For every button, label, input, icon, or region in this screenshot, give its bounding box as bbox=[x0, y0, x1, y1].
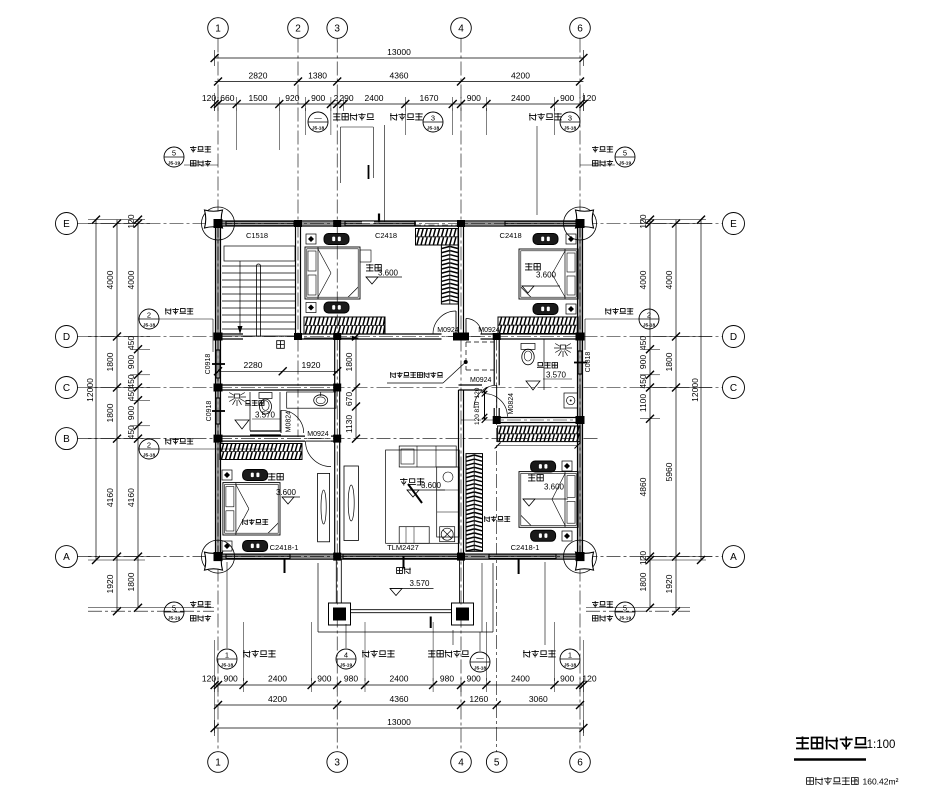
callout ext wall detail 4 bottom bbox=[336, 649, 356, 669]
svg-text:4160: 4160 bbox=[105, 488, 115, 507]
svg-text:5: 5 bbox=[172, 149, 176, 158]
svg-text:810: 810 bbox=[474, 401, 481, 412]
svg-text:1500: 1500 bbox=[249, 93, 268, 103]
dim line below hatch bbox=[498, 445, 578, 447]
svg-text:—: — bbox=[314, 114, 322, 123]
svg-text:900: 900 bbox=[317, 674, 331, 684]
shower head bathroom1 bbox=[228, 393, 246, 407]
window C1518 on E wall bbox=[226, 222, 294, 225]
wall interior B row with door opening bbox=[218, 437, 305, 440]
svg-text:900: 900 bbox=[224, 674, 238, 684]
svg-text:3.600: 3.600 bbox=[544, 483, 565, 492]
diamond bedroom4 upper bbox=[562, 461, 572, 471]
wall interior C row vestibule stub bbox=[459, 386, 483, 389]
svg-text:2: 2 bbox=[295, 24, 301, 35]
svg-text:1920: 1920 bbox=[105, 574, 115, 593]
balcony front rail bbox=[351, 609, 452, 611]
wall bathroom1 divider bbox=[279, 392, 281, 431]
svg-text:1920: 1920 bbox=[664, 574, 674, 593]
callout deco column bottom right bbox=[592, 601, 613, 608]
svg-text:3.600: 3.600 bbox=[421, 481, 442, 490]
wardrobe bedroom1 upper bbox=[533, 234, 558, 245]
svg-text:290: 290 bbox=[339, 93, 353, 103]
svg-text:2400: 2400 bbox=[511, 674, 530, 684]
svg-text:5: 5 bbox=[623, 604, 627, 613]
svg-text:1670: 1670 bbox=[420, 93, 439, 103]
dimension line top detail chain bbox=[215, 103, 584, 105]
svg-text:2: 2 bbox=[147, 311, 151, 320]
wall bathroom2 left grid 5 bbox=[495, 337, 498, 386]
wall exterior A row bbox=[218, 555, 580, 558]
svg-text:C2418: C2418 bbox=[500, 231, 522, 240]
node 3 bottom bubble bbox=[327, 752, 348, 773]
door M0924 into bedroom2 bbox=[433, 311, 456, 334]
svg-text:2: 2 bbox=[334, 93, 339, 103]
svg-text:4: 4 bbox=[458, 24, 464, 35]
grid line B horizontal bbox=[78, 438, 601, 440]
wardrobe bedroom3 upper bbox=[243, 470, 268, 481]
svg-text:J5-18: J5-18 bbox=[474, 666, 487, 672]
svg-text:1380: 1380 bbox=[308, 71, 327, 81]
door M0924 vestibule bbox=[484, 394, 486, 417]
level bedroom1 3.600 bbox=[522, 286, 534, 293]
node C right bubble bbox=[723, 377, 745, 399]
level line right below A bbox=[586, 607, 690, 609]
callout deco column top right bbox=[592, 146, 613, 153]
toilet bathroom1 bbox=[259, 393, 272, 399]
grid line A horizontal bbox=[78, 556, 723, 558]
interior dim right chain 1800 670 1130 bbox=[355, 337, 357, 439]
svg-text:：160.42m²: ：160.42m² bbox=[854, 777, 899, 787]
wardrobe bedroom4 upper bbox=[531, 461, 556, 472]
callout concrete steps bottom bbox=[428, 650, 469, 658]
dimension line right mid chain bbox=[675, 220, 677, 612]
node 6 top bubble bbox=[570, 18, 591, 39]
svg-text:1: 1 bbox=[215, 758, 221, 769]
svg-text:900: 900 bbox=[467, 674, 481, 684]
column blocks bbox=[214, 219, 223, 228]
extension lines top chain bbox=[236, 108, 238, 135]
diamond bedroom2 upper bbox=[306, 234, 316, 244]
grid line 2 vertical bbox=[297, 39, 299, 441]
balcony column right bbox=[452, 603, 474, 625]
door TLM2427 opening on A wall bbox=[343, 555, 458, 558]
node 2 top bubble bbox=[288, 18, 309, 39]
node A right bubble bbox=[723, 546, 745, 568]
hatch strip bedroom3 top bbox=[220, 444, 302, 460]
title floor plan bbox=[796, 737, 867, 750]
dimension line top spans bbox=[215, 81, 584, 83]
svg-text:3.570: 3.570 bbox=[409, 579, 430, 588]
stair down label bbox=[277, 341, 285, 349]
svg-text:B: B bbox=[63, 434, 70, 445]
svg-text:J5-18: J5-18 bbox=[143, 453, 156, 459]
svg-text:4200: 4200 bbox=[511, 71, 530, 81]
balcony side rail right bbox=[459, 559, 461, 603]
svg-text:3.570: 3.570 bbox=[255, 411, 276, 420]
svg-text:4360: 4360 bbox=[390, 71, 409, 81]
dimension line bottom spans bbox=[215, 704, 584, 706]
grid line 5 vertical bbox=[496, 336, 498, 752]
balcony level 3.570 bbox=[390, 589, 402, 596]
callout deco column top left bbox=[164, 147, 184, 167]
svg-text:2400: 2400 bbox=[390, 674, 409, 684]
wall bathroom2 bottom bbox=[494, 418, 580, 421]
svg-text:C1518: C1518 bbox=[246, 231, 268, 240]
svg-text:13000: 13000 bbox=[387, 717, 411, 727]
svg-text:980: 980 bbox=[344, 674, 358, 684]
svg-text:4000: 4000 bbox=[664, 270, 674, 289]
level living room 3.600 bbox=[407, 490, 419, 497]
diamond bedroom2 lower bbox=[306, 303, 316, 313]
node E right bubble bbox=[723, 213, 745, 235]
bed bedroom1 bbox=[519, 249, 578, 299]
label living room bbox=[400, 478, 424, 486]
svg-text:1800: 1800 bbox=[105, 403, 115, 422]
svg-text:C2418: C2418 bbox=[375, 231, 397, 240]
svg-text:2: 2 bbox=[647, 311, 651, 320]
svg-text:4860: 4860 bbox=[638, 477, 648, 496]
diamond bedroom1 lower bbox=[566, 304, 576, 314]
wardrobe bedroom3 lower bbox=[243, 541, 268, 552]
bed bedroom4 bbox=[519, 472, 578, 528]
svg-text:3060: 3060 bbox=[529, 694, 548, 704]
level bedroom2 3.600 bbox=[366, 277, 378, 284]
svg-text:J5-19: J5-19 bbox=[619, 161, 632, 167]
dimension line bottom 13000 bbox=[215, 727, 584, 729]
window C0918 lower on left wall bbox=[216, 398, 219, 424]
svg-text:M0924: M0924 bbox=[478, 327, 500, 334]
label bedroom2 bbox=[366, 264, 381, 272]
svg-text:4200: 4200 bbox=[268, 694, 287, 704]
svg-text:2400: 2400 bbox=[268, 674, 287, 684]
callout concrete steps top bbox=[308, 112, 328, 132]
svg-text:J5-18: J5-18 bbox=[312, 126, 325, 132]
svg-text:450: 450 bbox=[126, 387, 136, 401]
label bathroom1 bbox=[245, 400, 264, 406]
window C0918 upper on left wall bbox=[216, 350, 219, 378]
svg-text:6: 6 bbox=[577, 24, 583, 35]
window guard label bedroom3 bbox=[242, 519, 268, 525]
svg-text:450: 450 bbox=[126, 425, 136, 439]
svg-text:1800: 1800 bbox=[105, 352, 115, 371]
svg-text:4000: 4000 bbox=[638, 270, 648, 289]
grid line E horizontal bbox=[78, 223, 723, 225]
area note bbox=[807, 777, 859, 785]
svg-text:M0924: M0924 bbox=[307, 431, 329, 438]
svg-text:120: 120 bbox=[638, 551, 648, 565]
svg-text:120: 120 bbox=[126, 214, 136, 228]
hatch strip top attic bbox=[416, 229, 459, 246]
svg-text:E: E bbox=[730, 219, 737, 230]
svg-text:TLM2427: TLM2427 bbox=[387, 543, 419, 552]
window tick right wall bbox=[574, 362, 587, 364]
svg-text:3.570: 3.570 bbox=[546, 371, 567, 380]
svg-text:J5-18: J5-18 bbox=[143, 323, 156, 329]
node E left bubble bbox=[56, 213, 78, 235]
svg-text:5: 5 bbox=[623, 149, 627, 158]
svg-text:2400: 2400 bbox=[365, 93, 384, 103]
hatch strip vertical bedroom4 left bbox=[466, 454, 483, 552]
svg-text:12000: 12000 bbox=[85, 378, 95, 402]
hatch strip bedroom2 bottom bbox=[304, 317, 385, 334]
decorative corner column bottom-left bbox=[202, 540, 235, 573]
door M0924 into bedroom1 bbox=[466, 319, 482, 335]
diamond bedroom4 lower bbox=[562, 531, 572, 541]
svg-text:J5-19: J5-19 bbox=[168, 161, 181, 167]
wall interior grid 4 lower bbox=[459, 390, 462, 557]
node 1 top bubble bbox=[208, 18, 229, 39]
svg-text:1: 1 bbox=[225, 651, 229, 660]
svg-text:3: 3 bbox=[334, 758, 340, 769]
svg-text:900: 900 bbox=[560, 93, 574, 103]
decorative corner column top-left bbox=[202, 207, 235, 240]
coffee table bbox=[399, 527, 429, 544]
svg-text:3.600: 3.600 bbox=[276, 488, 297, 497]
diamond bedroom3 lower bbox=[222, 541, 232, 551]
svg-text:980: 980 bbox=[440, 674, 454, 684]
balcony side rail left bbox=[335, 559, 337, 603]
dimension line right 12000 bbox=[700, 220, 702, 560]
grid line 6 vertical bbox=[579, 39, 581, 752]
svg-text:A: A bbox=[63, 552, 70, 563]
svg-text:J5-19: J5-19 bbox=[340, 663, 353, 669]
node B left bubble bbox=[56, 428, 78, 450]
bed bedroom2 bbox=[305, 247, 360, 299]
wall bathroom2 divider bbox=[543, 339, 545, 390]
attic access projection label bbox=[464, 360, 468, 364]
extension lines bottom chain bbox=[243, 622, 245, 681]
svg-text:J5-18: J5-18 bbox=[564, 126, 577, 132]
callout ext wall detail 3 top right bbox=[529, 113, 562, 121]
flow arrow on D wall bbox=[304, 337, 352, 339]
diamond bedroom1 upper bbox=[566, 234, 576, 244]
label bedroom3 bbox=[268, 473, 283, 481]
svg-text:M0824: M0824 bbox=[285, 411, 292, 433]
label bedroom1 bbox=[525, 263, 540, 271]
node 3 top bubble bbox=[327, 18, 348, 39]
node C left bubble bbox=[56, 377, 78, 399]
dimension line left mid chain bbox=[116, 220, 118, 612]
level triangle bathroom2 bbox=[526, 381, 540, 390]
node D right bubble bbox=[723, 326, 745, 348]
svg-text:C0818: C0818 bbox=[585, 352, 592, 373]
wall exterior E row bbox=[218, 222, 580, 225]
dimension line right inner chain bbox=[649, 220, 651, 608]
bed bedroom3 bbox=[223, 483, 280, 535]
dimension line top 13000 bbox=[215, 57, 584, 59]
window ticks A wall bbox=[284, 559, 286, 573]
open band above attic hatch bbox=[415, 222, 459, 225]
svg-text:E: E bbox=[63, 219, 70, 230]
window C0818 on right wall bbox=[578, 351, 581, 374]
window C2418-1 right on A wall bbox=[489, 555, 556, 558]
svg-text:J5-18: J5-18 bbox=[427, 126, 440, 132]
svg-text:J5-19: J5-19 bbox=[168, 616, 181, 622]
fan living room bbox=[440, 527, 455, 542]
door center tick on A wall bbox=[403, 556, 405, 569]
balcony column left bbox=[329, 603, 351, 625]
stairs bbox=[224, 246, 295, 261]
svg-text:4360: 4360 bbox=[390, 694, 409, 704]
door M0824 bathroom2 bbox=[474, 385, 497, 408]
level line left below A bbox=[88, 607, 214, 609]
svg-text:450: 450 bbox=[126, 374, 136, 388]
svg-text:3: 3 bbox=[334, 24, 340, 35]
interior dim 2280 1920 bbox=[218, 370, 337, 372]
shower head bathroom2 bbox=[554, 344, 572, 358]
svg-text:450: 450 bbox=[638, 336, 648, 350]
diamond bedroom3 upper bbox=[222, 470, 232, 480]
svg-text:120: 120 bbox=[474, 414, 481, 425]
node A left bubble bbox=[56, 546, 78, 568]
wall exterior right grid 6 bbox=[578, 224, 581, 557]
level bedroom4 3.600 bbox=[523, 499, 535, 506]
svg-text:1: 1 bbox=[568, 651, 572, 660]
svg-text:900: 900 bbox=[126, 355, 136, 369]
svg-text:J5-18: J5-18 bbox=[643, 323, 656, 329]
svg-text:C0918: C0918 bbox=[205, 354, 212, 375]
grid dash overlay bbox=[297, 224, 299, 337]
svg-text:120: 120 bbox=[202, 93, 216, 103]
callout ext wall detail 2 left lower bbox=[139, 439, 159, 459]
svg-text:1800: 1800 bbox=[638, 572, 648, 591]
node 4 top bubble bbox=[451, 18, 472, 39]
svg-text:M0924: M0924 bbox=[470, 377, 492, 384]
svg-text:4000: 4000 bbox=[105, 270, 115, 289]
svg-text:12000: 12000 bbox=[690, 378, 700, 402]
svg-text:3.600: 3.600 bbox=[378, 269, 399, 278]
svg-text:1: 1 bbox=[215, 24, 221, 35]
sofa right chaise bbox=[437, 467, 460, 537]
wall interior grid 2 stair bbox=[296, 224, 299, 337]
node 6 bottom bubble bbox=[570, 752, 591, 773]
wall interior grid 4 upper bbox=[459, 224, 462, 337]
svg-text:C: C bbox=[730, 383, 737, 394]
hatch strip bedroom1 bottom bbox=[498, 317, 578, 334]
wash basin bathroom2 bbox=[564, 393, 578, 408]
svg-text:1130: 1130 bbox=[344, 415, 354, 434]
svg-text:4000: 4000 bbox=[126, 270, 136, 289]
svg-text:6: 6 bbox=[577, 758, 583, 769]
svg-text:4: 4 bbox=[458, 758, 464, 769]
toilet bathroom2 bbox=[521, 343, 535, 349]
level triangle bathroom1 bbox=[235, 420, 249, 429]
svg-text:900: 900 bbox=[560, 674, 574, 684]
balcony eave outline bbox=[317, 563, 319, 632]
svg-text:3: 3 bbox=[431, 114, 435, 123]
svg-text:3: 3 bbox=[568, 114, 572, 123]
svg-text:120: 120 bbox=[202, 674, 216, 684]
svg-text:D: D bbox=[63, 332, 70, 343]
svg-text:C2418-1: C2418-1 bbox=[270, 543, 299, 552]
svg-text:M0924: M0924 bbox=[437, 327, 459, 334]
svg-text:4160: 4160 bbox=[126, 488, 136, 507]
svg-text:900: 900 bbox=[311, 93, 325, 103]
svg-text:2: 2 bbox=[147, 441, 151, 450]
grid line D horizontal bbox=[78, 336, 723, 338]
attic access dashed outline bbox=[466, 341, 494, 343]
wardrobe bedroom1 lower bbox=[533, 304, 558, 315]
callout ext wall detail 1 bottom right bbox=[523, 650, 556, 658]
wall exterior left grid 1 bbox=[216, 224, 219, 557]
node D left bubble bbox=[56, 326, 78, 348]
wardrobe bedroom4 lower bbox=[531, 530, 556, 541]
window C2418 top right on E wall bbox=[505, 222, 576, 225]
svg-text:M0824: M0824 bbox=[508, 393, 515, 415]
svg-text:A: A bbox=[730, 552, 737, 563]
window C2418 top middle on E wall bbox=[345, 222, 415, 225]
svg-text:J5-19: J5-19 bbox=[619, 616, 632, 622]
svg-text:C2418-1: C2418-1 bbox=[511, 543, 540, 552]
window C2418-1 left on A wall bbox=[226, 555, 290, 558]
cabinet right of grid3 wall bbox=[344, 466, 358, 541]
svg-text:450: 450 bbox=[638, 374, 648, 388]
svg-text:900: 900 bbox=[638, 355, 648, 369]
hatch strip bedroom4 top bbox=[498, 426, 580, 442]
svg-text:1800: 1800 bbox=[664, 352, 674, 371]
wardrobe bedroom2 lower bbox=[324, 302, 349, 313]
interior dim door 120 810 120 bbox=[482, 388, 488, 394]
svg-text:4: 4 bbox=[344, 651, 348, 660]
svg-text:1100: 1100 bbox=[638, 394, 648, 413]
callout ext wall detail 2 left upper bbox=[139, 309, 159, 329]
door M0924 into bedroom3 bbox=[306, 441, 332, 467]
window tick E wall bbox=[378, 214, 380, 223]
balcony rail center tick bbox=[430, 617, 432, 629]
svg-text:3.600: 3.600 bbox=[536, 271, 557, 280]
svg-text:1920: 1920 bbox=[302, 360, 321, 370]
wall interior D row bbox=[218, 335, 243, 338]
balcony label bbox=[397, 567, 411, 574]
svg-text:1:100: 1:100 bbox=[867, 739, 896, 751]
counter with sink bbox=[287, 392, 336, 408]
svg-text:1800: 1800 bbox=[344, 352, 354, 371]
grid line 1 vertical bbox=[217, 39, 219, 752]
svg-text:670: 670 bbox=[344, 392, 354, 406]
node 5 bottom bubble bbox=[486, 752, 507, 773]
svg-text:5: 5 bbox=[494, 758, 500, 769]
svg-text:2400: 2400 bbox=[511, 93, 530, 103]
decorative corner column bottom-right bbox=[564, 540, 597, 573]
grid line 3 vertical bbox=[336, 39, 338, 752]
wall interior C row left bbox=[218, 386, 340, 389]
svg-text:120: 120 bbox=[582, 674, 596, 684]
svg-text:120: 120 bbox=[582, 93, 596, 103]
window ticks left wall bbox=[212, 363, 225, 365]
svg-text:660: 660 bbox=[220, 93, 234, 103]
svg-text:450: 450 bbox=[126, 336, 136, 350]
dimension line bottom detail chain bbox=[215, 684, 584, 686]
svg-text:2280: 2280 bbox=[244, 360, 263, 370]
svg-text:900: 900 bbox=[467, 93, 481, 103]
svg-text:120: 120 bbox=[638, 214, 648, 228]
svg-text:1800: 1800 bbox=[126, 572, 136, 591]
svg-text:C: C bbox=[63, 383, 70, 394]
side table bedroom2 bbox=[360, 250, 371, 262]
svg-text:D: D bbox=[730, 332, 737, 343]
svg-text:J5-18: J5-18 bbox=[564, 663, 577, 669]
svg-text:5: 5 bbox=[172, 604, 176, 613]
callout deco column bottom left bbox=[164, 602, 184, 622]
decorative corner column top-right bbox=[564, 207, 597, 240]
callout ext wall detail 3 top middle bbox=[390, 113, 423, 121]
cabinet left of grid3 wall bbox=[318, 473, 330, 541]
door M0824 bathroom1 bbox=[281, 410, 304, 433]
label bedroom4 bbox=[528, 474, 543, 482]
callout ext wall detail 2 right bbox=[605, 308, 633, 315]
svg-text:1260: 1260 bbox=[469, 694, 488, 704]
